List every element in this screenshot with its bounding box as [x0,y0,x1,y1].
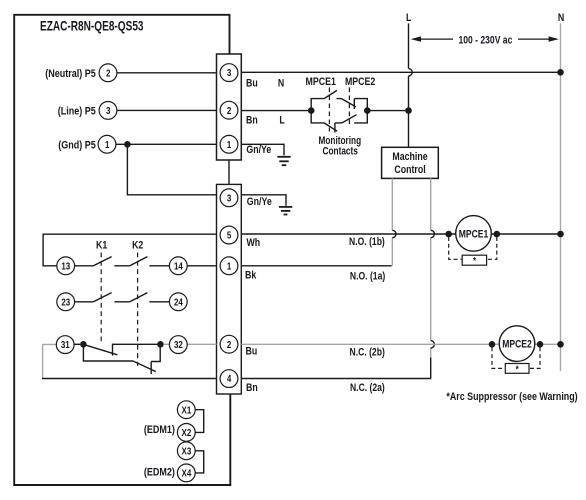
wire N bus vertical [560,23,562,371]
wire L bus vertical [408,23,410,147]
contact NC top blade [86,345,118,355]
wire 2a row left [42,378,217,380]
svg-text:3: 3 [227,67,231,78]
wire 2a row right to machine control [241,378,431,380]
svg-text:X3: X3 [182,446,192,457]
wire EDM1 jumper X1-X2 [195,410,204,433]
node L junction [405,107,412,114]
svg-text:*: * [516,364,520,375]
arc suppressor 1 dashed leads [449,237,497,259]
node monitoring left [308,107,315,114]
svg-text:L: L [279,114,284,126]
wire L row TB1-2 to monitoring contacts [241,110,311,112]
svg-text:*: * [473,255,477,266]
terminal TB2-1 [220,257,238,275]
node MPCE1 left [445,231,452,238]
wire Neutral row P5-2 to TB1-3 [117,72,217,74]
svg-text:X1: X1 [182,404,192,415]
svg-text:N: N [278,78,284,90]
svg-text:Control: Control [394,164,425,176]
svg-text:X4: X4 [182,468,192,479]
terminal X4 [177,464,195,482]
wire hop right lead over 1b [431,230,435,237]
svg-text:Contacts: Contacts [323,146,358,158]
arc suppressor 2 dashed leads [492,347,540,368]
terminal P5-3 (Line) [99,102,117,120]
wire machine control left lead [391,178,393,265]
terminal block TB2 body [217,184,242,394]
wire Gnd row P5-1 to TB1-1 [116,143,217,145]
wire EDM2 jumper X3-X4 [195,451,204,473]
enclosure outline EZAC-R8N-QE8-QS53 [14,15,230,485]
wire Line row P5-3 to TB1-2 [117,109,217,111]
wire 31 to left node [74,343,80,345]
monitoring contact MPCE1 blade upper [324,90,337,98]
svg-text:N.C. (2a): N.C. (2a) [350,382,385,394]
svg-text:L: L [406,12,411,24]
mechanical link K1 dashed [100,253,102,343]
node MPCE1 right [494,231,501,238]
svg-text:MPCE1: MPCE1 [459,228,489,240]
terminal TB1-2 [220,101,238,119]
node MPCE2 left [489,341,496,348]
terminal X3 [177,442,195,460]
terminal TB1-3 [220,64,238,82]
wire TB1-1 to ground [241,144,284,155]
svg-text:Bn: Bn [246,114,258,126]
svg-text:5: 5 [227,230,231,241]
wire 31 feedback loop gray [43,344,57,378]
contact K1 blade row1 [93,257,111,266]
mechanical link K2 dashed [137,253,139,366]
contact K2 blade row2 [130,293,148,302]
svg-text:2: 2 [106,68,110,79]
terminal TB2-5 [220,226,238,244]
wire 1a row TB2-1 to machine control [241,265,391,267]
wire top link 13 to TB2-5 [43,234,216,266]
contact K2 blade row1 [130,257,148,266]
terminal block TB1 body [217,54,242,160]
svg-text:Bn: Bn [246,382,258,394]
wire machine control right lead [430,178,432,358]
svg-text:MPCE2: MPCE2 [502,339,532,351]
node monitoring right [364,107,371,114]
svg-text:(EDM1): (EDM1) [144,424,175,436]
contact NC bottom blade [134,361,156,371]
terminal 23 [57,293,75,311]
node N at 1b row [557,231,564,238]
terminal P5-2 (Neutral) [99,64,117,82]
svg-text:X2: X2 [182,427,192,438]
node 31 junction [80,341,87,348]
svg-text:3: 3 [106,105,110,116]
svg-text:3: 3 [227,193,231,204]
svg-text:N: N [558,12,564,24]
svg-text:Wh: Wh [247,237,261,249]
svg-text:MPCE2: MPCE2 [345,76,376,88]
wire N row TB1-3 to N bus [241,71,560,73]
svg-text:14: 14 [174,261,183,272]
wire TB1 to TB2 link [228,160,230,184]
svg-text:1: 1 [105,139,109,150]
terminal TB2-2 [220,335,238,353]
monitoring contact MPCE2 blade lower [342,115,357,123]
monitoring contact MPCE2 bar upper [353,99,355,109]
arc suppressor 1 box [462,255,486,265]
monitoring contact upper path [311,99,367,111]
wire row 13-14 segments [75,265,170,267]
svg-text:24: 24 [174,297,183,308]
svg-text:Gn/Ye: Gn/Ye [247,196,272,208]
svg-text:100 - 230V ac: 100 - 230V ac [458,34,512,46]
ground symbol 2 [279,207,292,215]
contact K1 blade row2 [93,293,111,302]
load MPCE2 [499,326,535,362]
svg-text:N.O. (1b): N.O. (1b) [349,236,385,248]
svg-text:MPCE1: MPCE1 [306,76,337,88]
svg-text:Bk: Bk [245,270,257,282]
svg-text:Gn/Ye: Gn/Ye [246,144,271,156]
wire NC bottom step [151,344,160,361]
terminal TB2-4 [220,370,238,388]
monitoring contact MPCE1 bar lower [334,123,336,133]
terminal 31 [56,336,74,354]
contact NC top bar [112,344,114,356]
svg-text:2: 2 [227,105,231,116]
machine control box [382,147,439,178]
mechanical link MPCE2 dashed [348,88,350,125]
svg-text:(Line) P5: (Line) P5 [58,106,96,118]
wire monitoring to L bus [367,110,408,112]
svg-text:N.O. (1a): N.O. (1a) [350,271,385,283]
monitoring contact MPCE1 blade lower [324,123,337,131]
node Gnd junction [124,141,131,148]
node 32 junction [157,341,164,348]
voltage arrow 100-230V ac [419,38,550,40]
node N at 2b row [557,341,564,348]
svg-text:4: 4 [227,373,231,384]
wire Gnd branch to TB2-3 [127,144,216,195]
svg-text:Bu: Bu [246,78,258,90]
monitoring contact lower path [311,111,367,123]
svg-text:K2: K2 [132,240,144,252]
svg-text:32: 32 [174,339,183,350]
terminal TB2-3 [220,189,238,207]
contact NC bottom bar [150,362,152,375]
terminal 13 [57,257,75,275]
wire NC lower loop [83,344,133,361]
arc suppressor 2 box [505,364,529,374]
wire 2b row TB2-2 to MPCE2 and N gray [241,343,560,345]
wire node to 32 and TB2-2 gray [164,343,217,345]
ground symbol 1 [277,157,290,165]
svg-text:1: 1 [227,139,231,150]
wire NC top fixed [113,343,161,345]
svg-text:N.C. (2b): N.C. (2b) [350,347,385,359]
svg-text:K1: K1 [96,240,108,252]
svg-text:1: 1 [227,261,231,272]
svg-text:(EDM2): (EDM2) [144,467,175,479]
svg-text:23: 23 [61,297,70,308]
wire row 23-24 segments [75,301,170,303]
load MPCE1 [456,216,492,252]
svg-text:31: 31 [61,339,70,350]
wire 14 to TB2-1 [187,265,216,267]
svg-text:13: 13 [61,261,70,272]
wire 1b row TB2-5 to MPCE1 and N [241,233,560,235]
svg-text:(Gnd) P5: (Gnd) P5 [58,140,96,152]
node N at top row [557,69,564,76]
wire TB2-3 to ground [241,195,286,206]
wire hop left lead over 1b [392,230,396,237]
node MPCE2 right [537,341,544,348]
svg-text:*Arc Suppressor (see Warning): *Arc Suppressor (see Warning) [446,391,577,403]
wire hop right lead over 2b [431,341,435,348]
svg-text:Bu: Bu [246,346,258,358]
terminal P5-1 (Gnd) [98,135,116,153]
terminal 32 [169,336,187,354]
svg-text:Machine: Machine [392,151,428,163]
terminal 14 [169,257,187,275]
terminal X1 [177,401,195,419]
mechanical link MPCE1 dashed [328,88,330,132]
svg-text:(Neutral) P5: (Neutral) P5 [45,68,96,80]
svg-text:EZAC-R8N-QE8-QS53: EZAC-R8N-QE8-QS53 [40,18,144,34]
terminal 24 [169,293,187,311]
wire hop L over N row [409,69,413,76]
svg-text:2: 2 [227,339,231,350]
terminal X2 [177,424,195,442]
monitoring contact MPCE2 blade upper [342,99,356,107]
terminal TB1-1 [220,135,238,153]
